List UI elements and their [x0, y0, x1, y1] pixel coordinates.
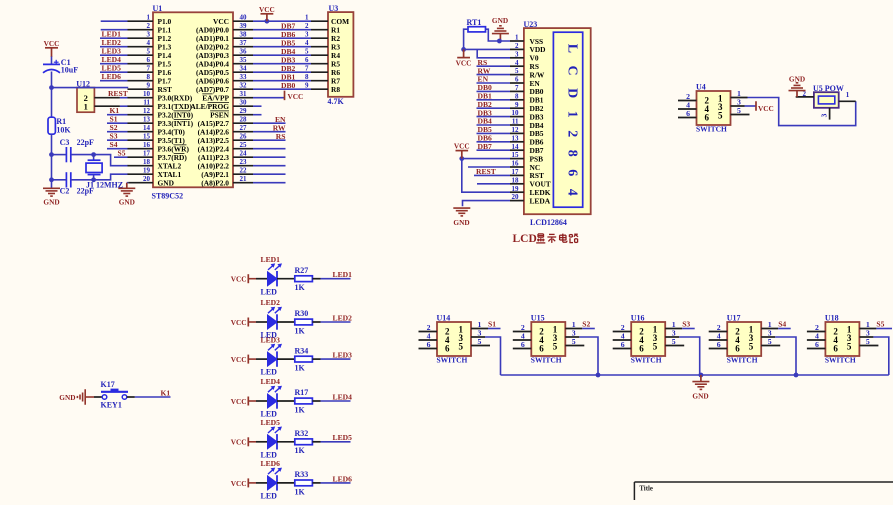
wire down left rail — [51, 155, 53, 180]
svg-text:LED6: LED6 — [102, 72, 122, 81]
svg-text:4: 4 — [515, 59, 519, 67]
resistor R34 1K — [295, 346, 321, 372]
pin U23.11 DB4 — [510, 118, 544, 130]
svg-text:10: 10 — [143, 90, 151, 98]
svg-text:5: 5 — [147, 48, 151, 56]
wire to ground — [51, 180, 53, 189]
svg-text:16: 16 — [143, 141, 151, 149]
power VCC (LCD PSB) — [454, 141, 470, 158]
switch U18 — [807, 314, 879, 365]
pin U1.37 — [196, 39, 253, 51]
svg-text:22: 22 — [240, 167, 248, 175]
svg-text:1K: 1K — [295, 283, 306, 292]
node junction VDD — [461, 47, 466, 52]
pin U1.21 — [201, 175, 253, 187]
LCD module U23 body — [524, 20, 591, 227]
svg-text:S4: S4 — [778, 320, 786, 329]
svg-text:(A8)P2.0: (A8)P2.0 — [201, 179, 229, 188]
pin U3.2 R1 — [305, 22, 340, 34]
svg-text:REST: REST — [108, 89, 128, 98]
wire U15 pin3 to bus — [579, 337, 598, 375]
wire + node S2 (U1 left) — [107, 123, 128, 132]
wire + node S2 (switch pin1) — [582, 320, 595, 329]
wire U18 pin3 to bus — [873, 337, 888, 375]
power VCC (LED5 row) — [231, 437, 256, 446]
svg-text:GND: GND — [692, 392, 708, 401]
svg-text:LED1: LED1 — [261, 255, 281, 264]
svg-text:U16: U16 — [631, 314, 645, 323]
wire + node LED1 (net label) — [321, 270, 353, 279]
svg-text:LED6: LED6 — [261, 459, 281, 468]
wire + node LED4 (net label) — [321, 392, 353, 401]
power VCC (LED2 row) — [231, 318, 256, 327]
pin U1.18 XTAL2 — [128, 158, 182, 170]
pin U23.3 V0 — [510, 50, 539, 62]
pin U1.11 P3.1 — [128, 99, 193, 111]
wire U14 pin3 to bus — [485, 337, 501, 375]
wire + node LED3 (U1 left) — [100, 46, 128, 55]
svg-text:R33: R33 — [295, 470, 309, 479]
resistor R17 1K — [295, 388, 321, 414]
svg-text:Title: Title — [639, 485, 652, 492]
pin U23.4 RS — [510, 59, 539, 71]
svg-text:U18: U18 — [825, 314, 839, 323]
wire U1 pin25 — [253, 148, 286, 150]
svg-text:LED: LED — [261, 450, 278, 459]
wire + node LED4 (U1 left) — [100, 55, 128, 64]
power VCC (LED3 row) — [231, 355, 256, 364]
wire U1 pin21 — [253, 182, 286, 184]
svg-text:20: 20 — [512, 193, 520, 201]
pin U23.8 DB1 — [510, 92, 544, 104]
power VCC (LED1 row) — [231, 274, 256, 283]
pin U1.14 P3.4 — [128, 124, 186, 136]
node label LCD display circuit title — [513, 233, 579, 245]
pin U1.13 P3.3 — [128, 116, 194, 128]
svg-text:1: 1 — [84, 102, 88, 112]
pin U12.2 — [94, 97, 120, 99]
pin U1.2 P1.1 — [128, 22, 172, 34]
svg-text:GND: GND — [119, 197, 135, 206]
svg-text:LED4: LED4 — [333, 392, 353, 401]
svg-text:LED2: LED2 — [261, 298, 281, 307]
pin U1.6 P1.5 — [128, 56, 172, 68]
wire + node DB5 (LCD) — [477, 125, 511, 134]
svg-text:3: 3 — [515, 50, 519, 58]
svg-text:1: 1 — [305, 14, 309, 22]
svg-text:GND: GND — [158, 179, 174, 188]
svg-text:S5: S5 — [876, 320, 884, 329]
svg-text:LED1: LED1 — [333, 270, 353, 279]
svg-text:1K: 1K — [295, 446, 306, 455]
wire VDD row — [464, 48, 510, 50]
wire + node DB2 (U1 to U3) — [253, 64, 311, 73]
svg-text:24: 24 — [240, 150, 248, 158]
wire crystal top to XTAL2 — [94, 155, 129, 166]
pin U1.15 P3.5 — [128, 133, 186, 145]
svg-text:SWITCH: SWITCH — [531, 356, 562, 365]
wire C2 right lead — [71, 179, 94, 181]
svg-text:RT1: RT1 — [467, 18, 482, 27]
LED D1 — [256, 255, 295, 296]
svg-text:LED: LED — [261, 492, 278, 501]
svg-text:LCD12864: LCD12864 — [530, 218, 567, 227]
svg-text:36: 36 — [240, 48, 248, 56]
wire U1 pin22 — [253, 173, 286, 175]
svg-text:R17: R17 — [295, 388, 309, 397]
switch U5 POW body — [813, 84, 844, 108]
power VCC (LED6 row) — [231, 478, 256, 487]
svg-text:29: 29 — [240, 107, 248, 115]
svg-text:1K: 1K — [295, 326, 306, 335]
wire + node K1 (U1 left) — [107, 106, 128, 115]
pin U3.8 R7 — [305, 73, 340, 86]
wire + node S5 (switch pin1) — [876, 320, 892, 329]
pin U1.4 P1.3 — [128, 39, 172, 51]
svg-text:4: 4 — [305, 39, 309, 47]
svg-text:2: 2 — [147, 22, 151, 30]
svg-text:34: 34 — [240, 65, 248, 73]
svg-text:1: 1 — [515, 34, 519, 42]
pin U23.15 PSB — [510, 151, 543, 163]
pin U3.1 COM — [305, 14, 349, 27]
wire + node RW (U1 right) — [253, 123, 286, 132]
svg-text:U17: U17 — [727, 314, 741, 323]
wire + node LED5 (net label) — [321, 433, 353, 442]
pin U1.23 — [198, 158, 253, 170]
svg-text:8: 8 — [305, 73, 309, 81]
node junction crystal top — [91, 152, 96, 157]
switch U14 — [419, 314, 491, 365]
svg-text:10: 10 — [512, 109, 520, 117]
wire + node DB7 (LCD) — [477, 142, 511, 151]
svg-text:SWITCH: SWITCH — [437, 356, 468, 365]
svg-text:R32: R32 — [295, 429, 309, 438]
op-amp U1 MCU ST89C52 body — [152, 4, 234, 200]
svg-text:27: 27 — [240, 124, 248, 132]
pin U1.17 P3.7 — [128, 150, 188, 162]
pin U1.10 P3.0 — [128, 90, 193, 102]
pin U23.14 DB7 — [510, 143, 544, 155]
svg-text:ST89C52: ST89C52 — [152, 191, 184, 200]
pin U5.3 (bottom) — [820, 108, 830, 120]
svg-text:26: 26 — [240, 133, 248, 141]
pin U23.6 EN — [510, 76, 540, 88]
wire + node DB3 (U1 to U3) — [253, 55, 311, 64]
wire V0 tap — [477, 49, 510, 57]
wire U12.1 to P3.1 row — [120, 105, 128, 107]
wire + node DB3 (LCD) — [477, 108, 511, 117]
resistor R32 1K — [295, 429, 321, 455]
pin U3.7 R6 — [305, 65, 340, 78]
svg-text:6: 6 — [147, 56, 151, 64]
svg-text:11: 11 — [143, 99, 150, 107]
pin U3.6 R5 — [305, 56, 340, 69]
svg-text:19: 19 — [143, 167, 151, 175]
wire RST row (junction to U1) — [52, 87, 129, 89]
wire + node DB4 (U1 to U3) — [253, 47, 311, 56]
svg-text:22pF: 22pF — [77, 138, 94, 147]
pin U23.5 R/W — [510, 67, 545, 79]
pin U1.32 — [196, 82, 253, 94]
svg-text:25: 25 — [240, 141, 248, 149]
wire + node DB5 (U1 to U3) — [253, 38, 311, 47]
svg-text:9: 9 — [515, 101, 519, 109]
svg-text:7: 7 — [305, 65, 309, 73]
svg-text:10uF: 10uF — [61, 65, 78, 74]
svg-text:U4: U4 — [696, 83, 706, 92]
pin U1.9 RST — [128, 82, 172, 94]
wire U17 pin3 to bus — [775, 337, 796, 375]
svg-text:15: 15 — [143, 133, 151, 141]
wire U1 pin23 — [253, 165, 286, 167]
svg-text:S4: S4 — [110, 140, 118, 149]
wire U1 pin1 — [101, 20, 128, 22]
wire junction to R1 — [51, 88, 53, 118]
svg-text:LED: LED — [261, 287, 278, 296]
wire ground bus — [501, 374, 889, 376]
LED D5 — [256, 418, 295, 459]
resistor RT1 — [467, 18, 486, 32]
wire VCC to C1 — [51, 57, 53, 65]
pin U5.1 — [839, 91, 856, 101]
svg-text:9: 9 — [147, 82, 151, 90]
svg-text:U3: U3 — [329, 4, 339, 13]
pin U1.38 — [196, 31, 253, 43]
svg-text:2: 2 — [515, 42, 519, 50]
wire LEDA to ground — [463, 201, 511, 207]
wire + node DB1 (U1 to U3) — [253, 72, 311, 81]
node junction PSB — [459, 156, 464, 161]
svg-text:LED2: LED2 — [333, 313, 353, 322]
pin U3.3 R2 — [305, 31, 340, 44]
pin U1.8 P1.7 — [128, 73, 172, 85]
pin U1.35 — [196, 56, 253, 68]
node junction bus/U17 — [794, 373, 799, 378]
wire crystal bottom to XTAL1 — [94, 174, 129, 180]
svg-text:GND: GND — [492, 16, 508, 25]
capacitor C2 22pF — [60, 172, 94, 196]
pin U1.1 P1.0 — [128, 14, 172, 26]
pin U1.36 — [196, 48, 253, 60]
wire + node S5 — [114, 148, 128, 157]
pin U1.19 XTAL1 — [128, 167, 182, 179]
svg-text:GND: GND — [43, 197, 59, 206]
wire + node LED5 (U1 left) — [100, 63, 128, 72]
pin U23.17 RST — [510, 168, 544, 180]
svg-text:31: 31 — [240, 90, 248, 98]
pin U1.22 — [201, 167, 253, 179]
svg-text:VCC: VCC — [44, 39, 60, 48]
svg-text:8: 8 — [147, 73, 151, 81]
svg-text:5: 5 — [515, 67, 519, 75]
power VCC (LCD VDD) — [456, 49, 472, 67]
switch U4 — [678, 83, 750, 134]
svg-text:21: 21 — [240, 175, 248, 183]
svg-text:SWITCH: SWITCH — [825, 356, 856, 365]
pin U1.5 P1.4 — [128, 48, 172, 60]
pin U1.27 — [198, 124, 253, 136]
svg-text:13: 13 — [512, 134, 520, 142]
wire PSB row — [462, 158, 510, 160]
wire U4 pin1 to U5 pin1 — [748, 98, 856, 126]
wire + node DB7 (U1 to U3) — [253, 21, 311, 30]
svg-text:1K: 1K — [295, 405, 306, 414]
pin U1.33 — [196, 73, 253, 85]
pin U23.20 LEDA — [510, 193, 551, 205]
svg-text:S1: S1 — [488, 320, 496, 329]
ground (left rail) — [43, 188, 60, 206]
wire + node LED6 (net label) — [321, 474, 353, 483]
svg-text:4.7K: 4.7K — [328, 97, 345, 106]
capacitor C3 22pF — [60, 138, 94, 162]
switch U15 — [513, 314, 585, 365]
node junction C2 left — [49, 177, 54, 182]
pin U1.7 P1.6 — [128, 65, 172, 77]
wire + node LED1 (U1 left) — [100, 29, 128, 38]
node junction bus/U15 — [596, 373, 601, 378]
svg-text:S2: S2 — [582, 320, 590, 329]
svg-text:11: 11 — [512, 118, 519, 126]
wire U1 pin24 — [253, 156, 286, 158]
capacitor C1 10uF — [43, 58, 78, 75]
pin U3.5 R4 — [305, 48, 340, 61]
svg-text:33: 33 — [240, 73, 248, 81]
wire + node RS (LCD) — [477, 58, 511, 67]
svg-text:13: 13 — [143, 116, 151, 124]
svg-text:3: 3 — [305, 31, 309, 39]
pin U23.10 DB3 — [510, 109, 544, 121]
pin U12.1 — [94, 105, 120, 107]
svg-text:R34: R34 — [295, 346, 309, 355]
wire U1 pin29 — [253, 114, 262, 116]
svg-text:9: 9 — [305, 82, 309, 90]
pin U1.24 — [198, 150, 253, 162]
svg-text:LED5: LED5 — [261, 418, 281, 427]
svg-text:U23: U23 — [524, 20, 538, 29]
svg-text:GND: GND — [59, 393, 75, 402]
wire R1 to C3 junction — [51, 134, 53, 154]
svg-text:KEY1: KEY1 — [101, 400, 122, 409]
wire + node S3 (switch pin1) — [682, 320, 695, 329]
ground (key, sideways) — [59, 389, 94, 405]
wire + node DB0 (U1 to U3) — [253, 81, 311, 90]
svg-text:VCC: VCC — [231, 438, 247, 447]
ground (switch bus) — [692, 375, 709, 401]
pin U23.16 NC — [510, 160, 540, 172]
LED D2 — [256, 298, 295, 339]
switch U16 — [613, 314, 685, 365]
svg-text:6: 6 — [515, 76, 519, 84]
svg-text:14: 14 — [143, 124, 151, 132]
svg-text:17: 17 — [143, 150, 151, 158]
svg-text:DB7: DB7 — [478, 142, 493, 151]
svg-text:R27: R27 — [295, 266, 309, 275]
wire + node RW (LCD) — [477, 66, 511, 75]
svg-text:16: 16 — [512, 160, 520, 168]
wire + node DB6 (LCD) — [477, 134, 511, 143]
pin U3.4 R3 — [305, 39, 340, 52]
svg-text:DB0: DB0 — [281, 81, 296, 90]
svg-text:RS: RS — [276, 132, 286, 141]
switch U17 — [709, 314, 781, 365]
svg-text:4: 4 — [147, 39, 151, 47]
svg-text:35: 35 — [240, 56, 248, 64]
power VCC (LED4 row) — [231, 397, 256, 406]
svg-text:LED: LED — [261, 368, 278, 377]
svg-text:VCC: VCC — [454, 141, 470, 150]
resistor R27 1K — [295, 266, 321, 292]
svg-text:U14: U14 — [437, 314, 451, 323]
svg-text:39: 39 — [240, 22, 248, 30]
wire + node EN (U1 right) — [253, 115, 286, 124]
wire + node LED6 (U1 left) — [100, 72, 128, 81]
svg-text:REST: REST — [476, 167, 496, 176]
pin U1.39 — [196, 22, 253, 34]
svg-text:J1 12MHZ: J1 12MHZ — [86, 181, 123, 190]
svg-text:1: 1 — [147, 14, 151, 22]
svg-text:20: 20 — [143, 175, 151, 183]
pin U1.12 P3.2 — [128, 107, 194, 119]
svg-text:K17: K17 — [101, 380, 115, 389]
svg-text:7: 7 — [515, 84, 519, 92]
node junction VSS/GND/RT1 — [497, 39, 502, 44]
svg-text:LED3: LED3 — [333, 351, 353, 360]
svg-text:VCC: VCC — [231, 275, 247, 284]
svg-text:8: 8 — [515, 92, 519, 100]
svg-text:S5: S5 — [118, 148, 126, 157]
wire RT1 right to VSS — [486, 29, 511, 41]
pin U5.2 — [796, 90, 814, 98]
wire + node DB6 (U1 to U3) — [253, 30, 311, 39]
resistor R30 1K — [295, 309, 321, 335]
svg-text:VCC: VCC — [288, 92, 304, 101]
svg-text:LED6: LED6 — [333, 474, 353, 483]
svg-text:37: 37 — [240, 39, 248, 47]
svg-text:10K: 10K — [56, 125, 71, 134]
LED D6 — [256, 459, 295, 500]
pin U23.9 DB2 — [510, 101, 544, 113]
svg-text:2: 2 — [305, 22, 309, 30]
pin U1.3 P1.2 — [128, 31, 172, 43]
wire U1 pin2 — [101, 29, 128, 31]
pin U1.30 — [190, 99, 253, 111]
svg-text:28: 28 — [240, 116, 248, 124]
connector U12 — [76, 79, 94, 112]
node junction C1/R1/RST — [49, 85, 54, 90]
pin U23.18 VOUT — [510, 176, 551, 188]
svg-text:SWITCH: SWITCH — [727, 356, 758, 365]
svg-text:3: 3 — [147, 31, 151, 39]
wire + node LED2 (U1 left) — [100, 38, 128, 47]
svg-text:LED4: LED4 — [261, 377, 281, 386]
ground (LCD VSS) — [492, 16, 509, 41]
svg-text:VCC: VCC — [231, 479, 247, 488]
node junction bus/U16/GND — [699, 373, 704, 378]
wire + node DB1 (LCD) — [477, 92, 511, 101]
resistor R33 1K — [295, 470, 321, 496]
svg-text:30: 30 — [240, 99, 248, 107]
resistor network U3 4.7K body — [328, 4, 354, 106]
LED D3 — [256, 335, 295, 376]
wire + node DB4 (LCD) — [477, 117, 511, 126]
svg-text:1K: 1K — [295, 364, 306, 373]
wire U1 pin30 — [253, 105, 262, 107]
wire U16 pin3 to bus — [679, 337, 700, 375]
wire + node RS (U1 right) — [253, 132, 286, 141]
wire C1 to junction — [51, 72, 53, 88]
pushbutton K17 KEY1 — [94, 380, 135, 410]
